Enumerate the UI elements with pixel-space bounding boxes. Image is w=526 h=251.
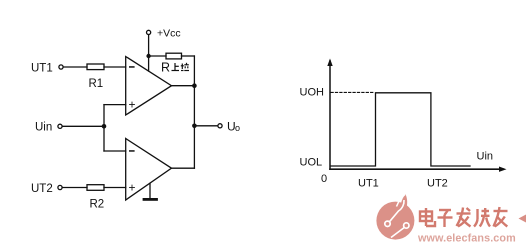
graph x-axis bbox=[330, 168, 503, 170]
logo circle bbox=[376, 202, 414, 240]
graph x-axis arrowhead bbox=[499, 167, 507, 172]
svg-text:UT1: UT1 bbox=[358, 178, 379, 190]
wire U1 output to bus bbox=[172, 85, 195, 87]
svg-text:www.elecfans.com: www.elecfans.com bbox=[417, 233, 516, 245]
node Uin terminal bbox=[58, 124, 62, 128]
node junction Uin bbox=[102, 124, 107, 129]
resistor R1 bbox=[87, 64, 104, 70]
wire output bus vertical bbox=[193, 56, 195, 168]
wire to U1 plus bbox=[104, 104, 126, 106]
WATERMARK logo elecfans bbox=[376, 194, 414, 239]
svg-text:Uin: Uin bbox=[477, 151, 494, 163]
wire to U2 minus bbox=[104, 150, 126, 152]
node +Vcc terminal bbox=[147, 30, 151, 34]
wire UT1 to R1 bbox=[63, 66, 87, 68]
node junction Uo bbox=[192, 124, 197, 129]
wire Vcc stub to op-amp U1 bbox=[148, 56, 150, 71]
resistor R2 bbox=[87, 185, 104, 191]
watermark cursor arrow bbox=[519, 215, 526, 223]
wire Uo tap bbox=[194, 125, 217, 127]
svg-text:+: + bbox=[129, 180, 136, 194]
wire bus to U2 output bbox=[172, 167, 195, 169]
svg-text:UT1: UT1 bbox=[31, 63, 53, 75]
wire input bus vertical bbox=[103, 105, 105, 151]
label R pull-up chinese 上拉 bbox=[172, 63, 190, 71]
op-amp U1 bbox=[126, 57, 172, 116]
svg-text:UT2: UT2 bbox=[31, 183, 53, 195]
waveform low-high-low bbox=[331, 93, 470, 166]
wire Vcc vertical bbox=[148, 35, 150, 56]
GRAPH bbox=[330, 61, 503, 169]
svg-text:0: 0 bbox=[321, 173, 327, 185]
dashed UOH level line bbox=[331, 91, 375, 93]
svg-text:R: R bbox=[161, 60, 170, 74]
svg-text:o: o bbox=[235, 123, 240, 133]
svg-text:R2: R2 bbox=[90, 199, 105, 211]
node UT1 terminal bbox=[59, 65, 63, 69]
svg-text:+: + bbox=[129, 98, 136, 112]
resistor R pull-up bbox=[166, 53, 182, 59]
wire R2 to U2 plus bbox=[104, 187, 126, 189]
node junction Vcc bbox=[146, 54, 150, 58]
wire Vcc to pull-up resistor bbox=[149, 55, 166, 57]
graph y-axis bbox=[329, 61, 331, 169]
wire R1 to opamp U1 minus bbox=[104, 66, 126, 68]
logo leaf tip bbox=[400, 194, 407, 209]
logo leaf notch bbox=[397, 195, 406, 207]
label U1 minus pin bbox=[129, 66, 135, 68]
node UT2 terminal bbox=[58, 185, 62, 189]
wire pull-up to output bus bbox=[182, 55, 195, 57]
svg-text:Uin: Uin bbox=[35, 122, 52, 134]
svg-text:UOL: UOL bbox=[300, 157, 323, 169]
node Uo terminal bbox=[218, 124, 222, 128]
svg-text:R1: R1 bbox=[89, 78, 104, 90]
wire Uin to junction bbox=[62, 125, 104, 127]
watermark text 电子发烧友 (drawn strokes with white emboss) bbox=[421, 208, 509, 228]
label U2 minus pin bbox=[129, 150, 135, 152]
svg-text:UT2: UT2 bbox=[427, 178, 448, 190]
graph y-axis arrowhead bbox=[327, 59, 332, 67]
wire UT2 to R2 bbox=[62, 187, 87, 189]
logo circuit traces bbox=[390, 200, 405, 238]
node junction U1 output bbox=[192, 83, 197, 88]
svg-text:UOH: UOH bbox=[300, 87, 325, 99]
svg-text:+Vcc: +Vcc bbox=[157, 28, 181, 40]
ground bbox=[149, 183, 151, 198]
op-amp U2 bbox=[126, 139, 172, 201]
